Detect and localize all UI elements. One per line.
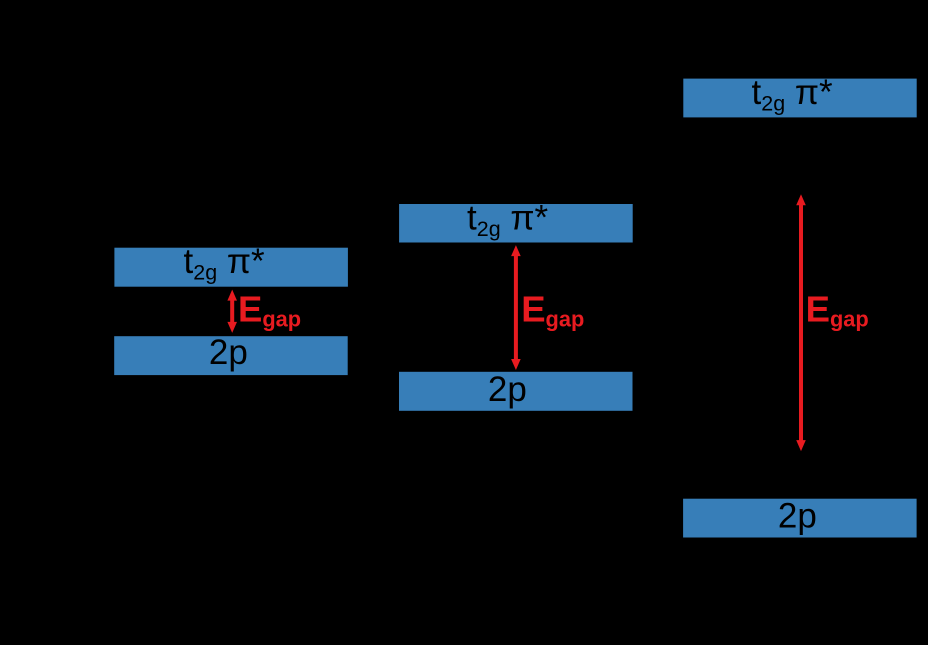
svg-text:2p: 2p [209,333,248,372]
svg-text:2p: 2p [778,496,817,535]
svg-text:2p: 2p [488,370,527,409]
